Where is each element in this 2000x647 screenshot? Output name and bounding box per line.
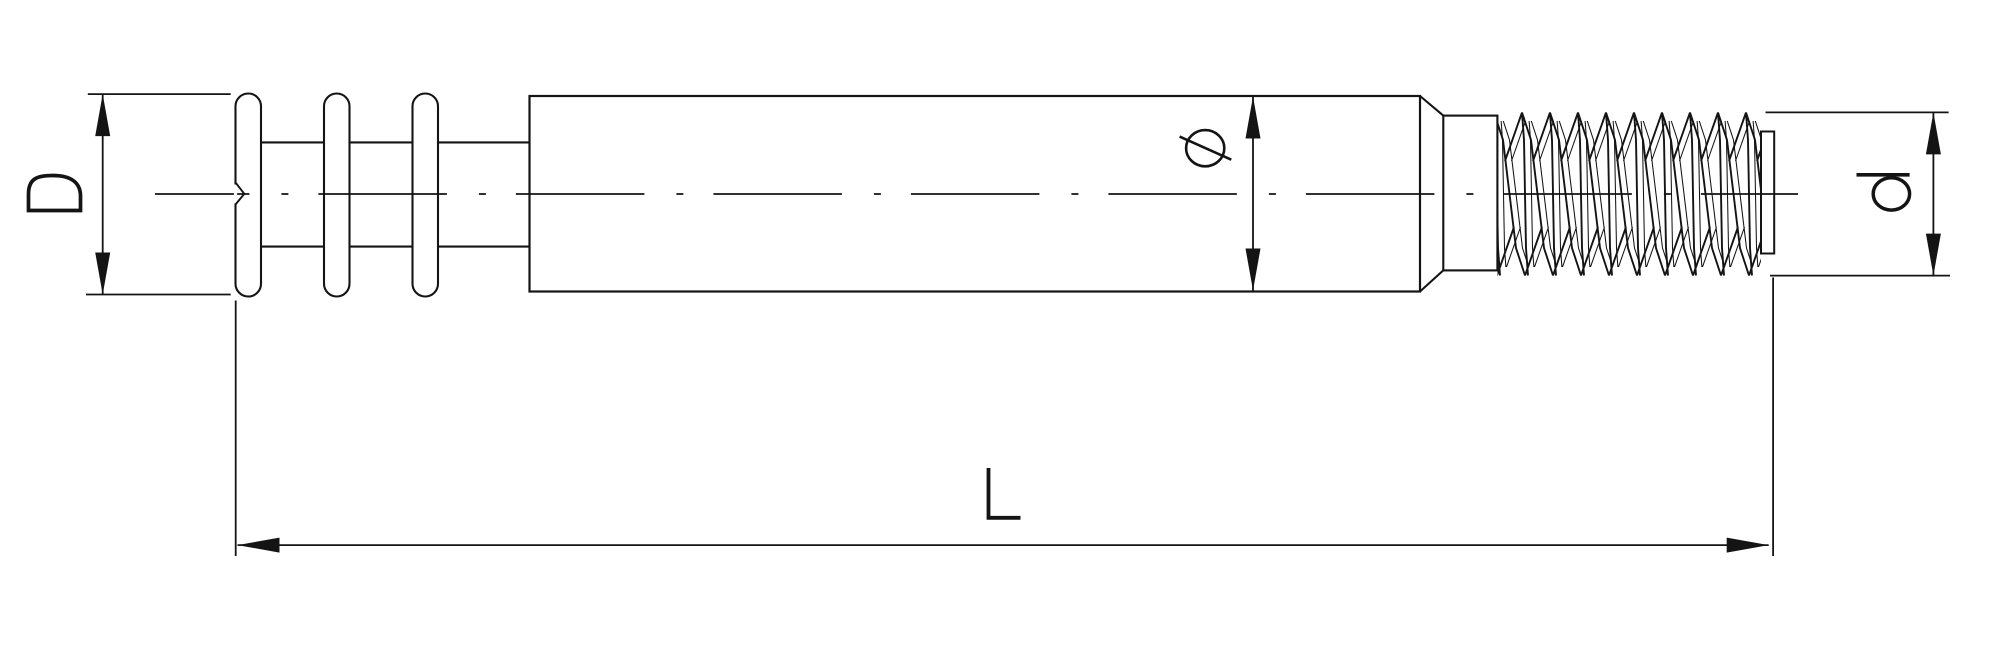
dimension d extension line top [1766, 111, 1949, 113]
dimension phi line [1252, 97, 1254, 291]
dimension phi arrow up [1246, 97, 1261, 139]
label L (hand-drawn) [989, 468, 1021, 518]
label D (rotated glyph, hand-drawn) [29, 176, 81, 211]
label d (rotated glyph, hand-drawn) [1857, 173, 1910, 177]
dimension phi arrow down [1246, 249, 1261, 291]
rib capsule 3 [413, 94, 439, 297]
dimension D extension line top [88, 93, 231, 95]
label phi circle [1186, 130, 1224, 166]
dimension D arrow up [95, 94, 110, 136]
dimension D line [102, 94, 104, 294]
dimension d arrow up [1926, 112, 1941, 154]
centerline (dash-dot axis) [155, 193, 1798, 195]
chamfer top edge [1420, 96, 1443, 116]
inner shaft bottom line segments [261, 246, 530, 248]
dimension d line [1932, 112, 1934, 275]
thread helix thin lines [1456, 113, 1840, 276]
dimension L arrow left [238, 538, 280, 553]
label phi slash [1180, 137, 1232, 160]
inner shaft top line segments [261, 141, 530, 143]
rib capsule 1 [236, 94, 262, 297]
dimension L line [238, 544, 1769, 546]
thread helix bold lines [1449, 113, 1833, 276]
chamfer bottom edge [1420, 270, 1443, 291]
main body rectangle [530, 96, 1421, 292]
capsule 1 kink cover [234, 185, 237, 204]
dimension L arrow right [1727, 538, 1769, 553]
neck rectangle [1443, 116, 1497, 271]
dimension d extension line bottom [1770, 275, 1950, 277]
dimension L extension line left [235, 301, 237, 557]
dimension D arrow down [95, 253, 110, 295]
dimension d arrow down [1926, 234, 1941, 276]
capsule 1 kink chevron [236, 183, 245, 205]
thread end cap [1761, 132, 1774, 254]
dimension D extension line bottom [86, 294, 231, 296]
dimension L extension line right [1772, 278, 1774, 557]
rib capsule 2 [324, 94, 350, 297]
